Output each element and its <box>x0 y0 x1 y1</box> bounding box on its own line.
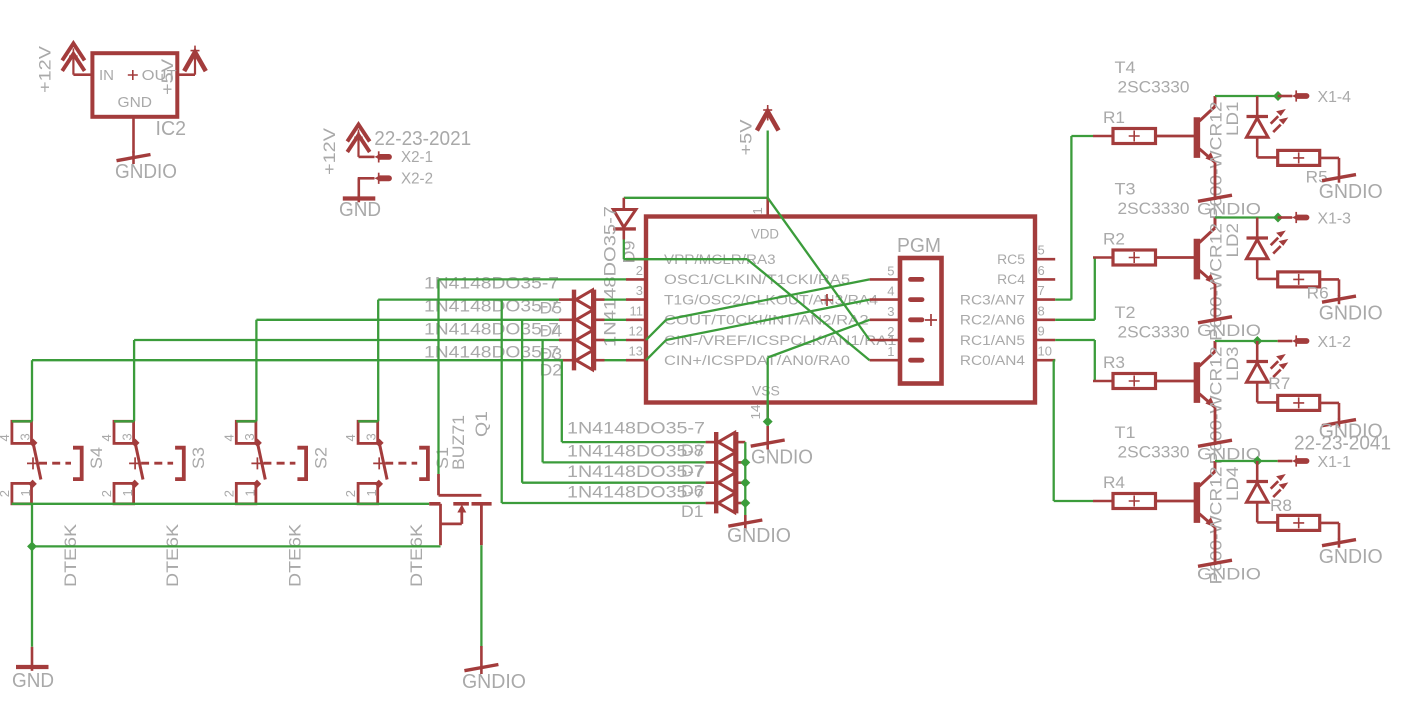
wire S3 pin3 riser <box>133 340 135 421</box>
pin 3 stub <box>626 298 646 301</box>
svg-text:RC3/AN7: RC3/AN7 <box>960 292 1025 307</box>
svg-text:12: 12 <box>629 324 643 339</box>
diode stack D2-D5 anode rail <box>592 290 596 371</box>
wire Q1 gate riser <box>437 279 439 474</box>
svg-text:GNDIO: GNDIO <box>1319 303 1383 325</box>
svg-text:GND: GND <box>118 94 153 111</box>
svg-text:3: 3 <box>636 283 643 298</box>
wire emitter of T3 down <box>1214 284 1217 322</box>
svg-text:CIN+/ICSPDAT/AN0/RA0: CIN+/ICSPDAT/AN0/RA0 <box>664 353 850 368</box>
switch S1 <box>358 421 428 504</box>
svg-text:X1-4: X1-4 <box>1318 89 1352 106</box>
wire net row S3 to D3 <box>134 339 559 341</box>
wire GND bus horizontal <box>32 545 441 547</box>
svg-text:LD1: LD1 <box>1223 102 1242 137</box>
PGM pin 5 contact bar <box>911 277 923 282</box>
pin 1 stub VDD <box>766 198 769 217</box>
svg-text:X1-1: X1-1 <box>1318 454 1352 471</box>
wire net row S4 to D2 <box>32 359 563 361</box>
svg-text:GND: GND <box>339 199 381 221</box>
svg-text:X1-2: X1-2 <box>1318 334 1352 351</box>
svg-text:D8: D8 <box>681 441 704 460</box>
ground GNDIO at R7 <box>1322 419 1356 428</box>
switch S2 <box>236 421 306 504</box>
microcontroller IC1 body <box>646 217 1035 403</box>
svg-text:BUZ71: BUZ71 <box>449 415 468 470</box>
wire net row OSC1 from Q1 gate <box>439 278 627 280</box>
wire IC2 IN pin <box>73 73 92 76</box>
svg-text:1: 1 <box>750 207 765 214</box>
wire IC2 GND pin <box>132 117 135 153</box>
ground GND bottom left <box>16 647 49 671</box>
wire D2 to pin 13 <box>605 359 627 361</box>
svg-text:4: 4 <box>221 434 236 441</box>
PGM pin 4 contact bar <box>911 297 923 302</box>
pin 5 stub <box>1035 258 1055 261</box>
pin 12 stub <box>626 339 646 342</box>
wire drop S3 net to D7 <box>541 340 543 462</box>
svg-text:DTE6K: DTE6K <box>285 523 304 587</box>
origin cross S1 <box>373 457 385 469</box>
wire emitter of T4 down <box>1214 162 1217 200</box>
svg-text:X2-1: X2-1 <box>401 149 433 166</box>
pin 2 stub <box>626 278 646 281</box>
PGM pin 3 contact bar <box>911 317 923 322</box>
svg-text:R4: R4 <box>1103 473 1125 492</box>
wire net row S2 to D4 <box>256 319 559 321</box>
ground GNDIO at R8 <box>1322 539 1356 548</box>
supply +5V symbol at IC2 output <box>184 46 206 75</box>
svg-text:GNDIO: GNDIO <box>1319 546 1383 568</box>
svg-text:9: 9 <box>1038 324 1045 339</box>
svg-text:GNDIO: GNDIO <box>727 525 791 547</box>
junction at VSS pin <box>763 417 773 427</box>
svg-text:2SC3330: 2SC3330 <box>1118 78 1190 97</box>
pin stub VPP row <box>626 258 646 261</box>
resistor R6 <box>1278 272 1320 287</box>
svg-text:4: 4 <box>887 284 894 299</box>
resistor R2 <box>1113 250 1156 265</box>
svg-text:LD4: LD4 <box>1223 467 1242 502</box>
connector pin X2-2 <box>375 173 390 184</box>
wire D3 to pin 12 <box>605 339 627 341</box>
svg-text:+5V: +5V <box>158 58 177 95</box>
LED LD1 <box>1247 96 1289 157</box>
svg-text:RC2/AN6: RC2/AN6 <box>960 313 1025 328</box>
svg-text:Q1: Q1 <box>472 411 491 437</box>
origin cross S3 <box>129 457 141 469</box>
wire pin 7 to R1 <box>1055 298 1071 300</box>
origin cross PGM <box>925 314 937 326</box>
connector pin X1-3 <box>1292 212 1307 223</box>
diode stack D1-D8 anode rail <box>734 432 738 513</box>
wire switch common bus <box>12 503 430 505</box>
svg-text:T1: T1 <box>1115 423 1136 442</box>
wire S1 top edge <box>358 420 378 422</box>
svg-text:D7: D7 <box>681 462 704 481</box>
connector pin X1-1 <box>1292 455 1307 466</box>
svg-text:10: 10 <box>1038 344 1052 359</box>
svg-text:R6: R6 <box>1307 284 1329 303</box>
svg-text:S3: S3 <box>189 447 208 469</box>
diode D2 <box>559 351 605 370</box>
svg-text:IC2: IC2 <box>156 118 187 140</box>
connector PGM body <box>900 258 942 384</box>
ground GNDIO at emitter of T2 <box>1198 440 1232 446</box>
resistor R3 <box>1113 374 1156 389</box>
wire collector net of T3 <box>1215 216 1278 218</box>
wire to pin X1-3 <box>1278 216 1293 219</box>
svg-text:+12V: +12V <box>320 127 339 175</box>
svg-text:1N4148DO35-7: 1N4148DO35-7 <box>567 419 705 438</box>
wire collector net of T4 <box>1215 95 1278 97</box>
svg-text:22-23-2021: 22-23-2021 <box>374 128 471 150</box>
LED LD2 <box>1247 218 1289 279</box>
ground GNDIO at R6 <box>1322 295 1356 304</box>
wire emitter of T2 down <box>1214 407 1217 445</box>
PGM pin 1 contact bar <box>911 358 923 363</box>
svg-text:1N4148DO35-7: 1N4148DO35-7 <box>601 206 620 347</box>
wire S2 top edge <box>236 420 256 422</box>
svg-text:RC1/AN5: RC1/AN5 <box>960 333 1025 348</box>
wire collector net of T1 <box>1215 460 1278 462</box>
wire base lead of T4 <box>1156 135 1195 138</box>
resistor R8 <box>1278 515 1320 530</box>
wire S1 pin3 riser <box>377 300 379 422</box>
svg-text:13: 13 <box>629 344 643 359</box>
svg-text:4: 4 <box>99 434 114 441</box>
diode stack D2-D5 cathode rail <box>572 290 576 371</box>
svg-text:DTE6K: DTE6K <box>61 523 80 587</box>
svg-text:IN: IN <box>99 67 114 84</box>
svg-text:1: 1 <box>18 489 33 496</box>
svg-text:11: 11 <box>630 303 644 318</box>
wire D9 anode to VPP row <box>623 240 625 260</box>
pin 10 stub <box>1035 359 1055 362</box>
wire net row S1 to D5 <box>378 298 559 300</box>
junction lower stack row D1 <box>740 498 750 508</box>
wire R6 to GNDIO <box>1320 278 1339 281</box>
switch S3 <box>114 421 184 504</box>
pin 13 stub <box>626 359 646 362</box>
svg-text:7: 7 <box>1038 283 1045 298</box>
origin cross IC2 <box>128 70 138 80</box>
wire ICSPDAT diagonal to PGM pin 4 <box>666 300 870 340</box>
junction at X1-4 <box>1273 91 1283 101</box>
wire GND bus down to GND <box>31 546 33 646</box>
svg-text:3: 3 <box>887 304 894 319</box>
origin cross S4 <box>27 457 39 469</box>
origin cross IC1 <box>821 294 833 306</box>
wire lower stack common vertical <box>744 442 746 517</box>
PGM pin 2 stub <box>870 339 900 342</box>
diode stack D1-D8 cathode rail <box>714 432 718 513</box>
svg-text:2SC3330: 2SC3330 <box>1118 323 1190 342</box>
transistor Q1 BUZ71 <box>429 474 491 545</box>
svg-text:3: 3 <box>242 433 257 440</box>
svg-text:GNDIO: GNDIO <box>1319 181 1383 203</box>
svg-text:2SC3330: 2SC3330 <box>1118 443 1190 462</box>
diode D9 <box>613 198 636 240</box>
svg-text:GNDIO: GNDIO <box>1197 565 1261 584</box>
diode D4 <box>559 310 605 329</box>
LED LD3 <box>1247 341 1289 402</box>
svg-text:R3: R3 <box>1103 353 1125 372</box>
connector pin X1-4 <box>1292 90 1307 101</box>
wire S4 pin3 riser <box>31 360 33 421</box>
pin 8 stub <box>1035 318 1055 321</box>
wire R lead red into R2 <box>1093 256 1113 259</box>
svg-text:+12V: +12V <box>36 45 55 93</box>
ground GNDIO under diode stack <box>728 515 762 530</box>
wire collector net of T2 <box>1215 340 1278 342</box>
wire +5V vertical to VDD pin <box>767 131 769 198</box>
svg-text:4: 4 <box>343 434 358 441</box>
svg-text:D6: D6 <box>681 482 704 501</box>
svg-text:GND: GND <box>12 670 54 692</box>
origin cross S2 <box>251 457 263 469</box>
wire D4 to pin 11 <box>605 319 627 321</box>
wire ICSPDAT jog at pin 13 <box>646 340 666 360</box>
wire +5V horizontal to D9 <box>624 197 768 199</box>
svg-text:2: 2 <box>99 490 114 497</box>
wire pin 9 to R3 <box>1055 339 1095 341</box>
pin 9 stub <box>1035 339 1055 342</box>
svg-text:DTE6K: DTE6K <box>407 523 426 587</box>
svg-text:D1: D1 <box>681 502 704 521</box>
wire VSS vertical <box>767 358 769 428</box>
svg-text:VSS: VSS <box>752 383 780 398</box>
ground GNDIO at VSS <box>751 426 785 450</box>
connector pin X2-1 <box>375 151 390 162</box>
wire ICSPCLK diagonal to PGM pin 5 <box>666 279 870 319</box>
wire R lead red into R3 <box>1093 380 1113 383</box>
svg-text:2: 2 <box>343 490 358 497</box>
wire drop S2 net to D6 <box>521 320 523 483</box>
wire base lead of T3 <box>1156 256 1195 259</box>
ground GNDIO at emitter of T4 <box>1198 195 1232 201</box>
PGM pin 4 stub <box>870 298 900 301</box>
wire R7 to GNDIO <box>1320 402 1339 405</box>
PGM pin 1 stub <box>870 359 900 362</box>
ground GNDIO at emitter of T1 <box>1198 560 1232 566</box>
wire D5 to pin 3 <box>605 298 627 300</box>
ground GNDIO under Q1 <box>464 646 498 674</box>
diode D7 <box>706 453 746 472</box>
svg-text:X2-2: X2-2 <box>401 171 433 188</box>
PGM pin 3 stub <box>870 318 900 321</box>
connector pin X1-2 <box>1292 335 1307 346</box>
svg-text:GNDIO: GNDIO <box>751 447 813 469</box>
junction S4 to GND bus <box>27 541 37 551</box>
svg-text:LD2: LD2 <box>1223 223 1242 258</box>
svg-text:T4: T4 <box>1115 58 1136 77</box>
ground GNDIO at R5 <box>1322 174 1356 183</box>
resistor R4 <box>1113 494 1156 509</box>
wire to pin X1-2 <box>1278 340 1293 343</box>
wire S4 pin1 down <box>31 504 33 547</box>
resistor R7 <box>1278 395 1320 410</box>
svg-text:8: 8 <box>1038 303 1045 318</box>
wire to pin X1-4 <box>1278 95 1293 98</box>
svg-text:1: 1 <box>242 489 257 496</box>
svg-text:S4: S4 <box>87 447 106 469</box>
wire emitter of T1 down <box>1214 527 1217 565</box>
wire X2-2 to GND <box>359 177 375 180</box>
wire base lead of T1 <box>1156 500 1195 503</box>
transistor T3 2SC3330 <box>1197 218 1215 285</box>
diode D5 <box>559 290 605 309</box>
svg-text:+5V: +5V <box>737 119 756 156</box>
svg-text:GNDIO: GNDIO <box>115 161 177 183</box>
svg-text:2: 2 <box>0 490 12 497</box>
supply +12V symbol at X2 <box>347 125 369 157</box>
switch S4 <box>12 421 82 504</box>
wire drop S4 net to D8 <box>561 360 563 442</box>
resistor R5 <box>1278 150 1320 165</box>
svg-text:5: 5 <box>887 263 894 278</box>
svg-text:RC5: RC5 <box>997 252 1025 267</box>
wire net MCLR diagonal to PGM pin 1 <box>747 259 869 360</box>
ground GND at X2 <box>343 178 376 202</box>
ground GNDIO at emitter of T3 <box>1198 317 1232 323</box>
wire R lead red into R1 <box>1093 135 1113 138</box>
svg-text:2: 2 <box>221 490 236 497</box>
pin 6 stub <box>1035 278 1055 281</box>
wire to pin X1-1 <box>1278 460 1293 463</box>
wire S3 top edge <box>114 420 134 422</box>
wire IC2 OUT pin <box>177 73 195 76</box>
wire R lead red into R4 <box>1093 500 1113 503</box>
svg-text:X1-3: X1-3 <box>1318 210 1352 227</box>
svg-text:3: 3 <box>364 433 379 440</box>
svg-text:1N4148DO35-7: 1N4148DO35-7 <box>424 274 559 293</box>
resistor R1 <box>1113 129 1156 144</box>
wire drop S1 net to D1 <box>501 300 503 503</box>
svg-text:S2: S2 <box>311 447 330 469</box>
wire pin 8 to R2 <box>1055 319 1095 321</box>
svg-text:2: 2 <box>636 263 643 278</box>
junction at X1-3 <box>1273 213 1283 223</box>
svg-text:D4: D4 <box>540 322 563 341</box>
diode D3 <box>559 330 605 349</box>
svg-text:VDD: VDD <box>751 226 779 241</box>
wire pin 10 to R4 <box>1054 359 1056 361</box>
svg-text:R2: R2 <box>1103 230 1125 249</box>
svg-text:2: 2 <box>887 324 894 339</box>
svg-text:GNDIO: GNDIO <box>1197 321 1261 340</box>
pin 11 stub <box>626 318 646 321</box>
ground GNDIO under IC2 <box>117 152 151 165</box>
svg-text:14: 14 <box>748 405 763 420</box>
svg-text:R1: R1 <box>1103 108 1125 127</box>
svg-text:D5: D5 <box>540 299 563 318</box>
svg-text:LD3: LD3 <box>1223 347 1242 382</box>
svg-text:4: 4 <box>0 434 12 441</box>
junction at X1-2 <box>1252 336 1262 346</box>
svg-text:1: 1 <box>120 489 135 496</box>
wire R8 to GNDIO <box>1320 522 1339 525</box>
svg-text:1: 1 <box>887 344 894 359</box>
supply +12V symbol at IC2 input <box>62 43 84 74</box>
svg-text:6: 6 <box>1038 263 1045 278</box>
wire S2 pin3 riser <box>255 320 257 422</box>
svg-text:DTE6K: DTE6K <box>163 523 182 587</box>
wire base lead of T2 <box>1156 380 1195 383</box>
transistor T2 2SC3330 <box>1197 341 1215 408</box>
svg-text:R8: R8 <box>1270 496 1292 515</box>
svg-text:3: 3 <box>120 433 135 440</box>
svg-text:22-23-2041: 22-23-2041 <box>1294 433 1391 455</box>
supply +5V symbol above IC1 <box>757 105 779 131</box>
svg-text:5: 5 <box>1038 243 1045 258</box>
diode D8 <box>706 433 746 452</box>
diode D1 <box>706 493 746 512</box>
wire net MCLR horizontal <box>624 258 747 260</box>
svg-text:2SC3330: 2SC3330 <box>1118 199 1190 218</box>
svg-text:3: 3 <box>18 433 33 440</box>
svg-text:R7: R7 <box>1268 374 1290 393</box>
svg-text:T3: T3 <box>1115 180 1136 199</box>
wire to X2-1 pin <box>359 156 375 159</box>
svg-text:RC4: RC4 <box>997 272 1025 287</box>
voltage regulator IC2 body <box>92 53 177 117</box>
wire ICSPCLK jog at pin 12 <box>646 320 666 340</box>
wire S4 top edge <box>12 420 32 422</box>
wire Q1 drain to GNDIO <box>480 545 482 647</box>
junction lower stack row D7 <box>740 457 750 467</box>
junction at X1-1 <box>1252 456 1262 466</box>
wire net +5V diagonal to PGM pin 2 <box>768 198 870 340</box>
wire R5 to GNDIO <box>1320 157 1339 160</box>
svg-text:CIN-/VREF/ICSPCLK/AN1/RA1: CIN-/VREF/ICSPCLK/AN1/RA1 <box>664 333 897 348</box>
pin 14 stub VSS <box>766 403 769 419</box>
svg-text:GNDIO: GNDIO <box>462 671 526 693</box>
diode D6 <box>706 473 746 492</box>
PGM pin 2 contact bar <box>911 338 923 343</box>
junction lower stack row D6 <box>740 478 750 488</box>
svg-text:GNDIO: GNDIO <box>1197 200 1261 219</box>
transistor T1 2SC3330 <box>1197 461 1215 528</box>
svg-text:RC0/AN4: RC0/AN4 <box>960 353 1026 368</box>
pin 7 stub <box>1035 298 1055 301</box>
LED LD4 <box>1247 461 1289 522</box>
svg-text:T2: T2 <box>1115 303 1136 322</box>
svg-text:1: 1 <box>364 489 379 496</box>
svg-text:PGM: PGM <box>897 235 941 257</box>
PGM pin 5 stub <box>870 278 900 281</box>
wire VSS diagonal to PGM pin 3 <box>768 320 870 358</box>
transistor T4 2SC3330 <box>1197 96 1215 163</box>
